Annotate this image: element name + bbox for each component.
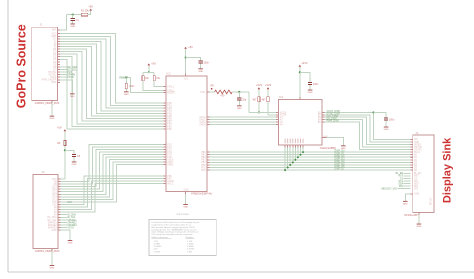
svg-text:+3V3: +3V3 [301,61,308,65]
svg-text:GND: GND [384,129,389,131]
svg-text:J2: J2 [42,170,45,174]
svg-text:XTAL1: XTAL1 [167,86,175,89]
svg-text:5 EN: 5 EN [187,251,192,253]
svg-text:AREF: AREF [167,164,174,167]
svg-text:AVCC: AVCC [167,182,174,185]
svg-text:GND: GND [124,94,129,96]
svg-text:I2C_SDA: I2C_SDA [47,216,57,219]
svg-text:100n: 100n [389,118,395,121]
svg-text:GND: GND [183,206,188,208]
svg-text:3.3V except the backlight and: 3.3V except the backlight and the connec… [151,233,193,236]
svg-text:GND: GND [68,242,73,244]
svg-text:J3: J3 [415,131,418,135]
svg-text:ADC6: ADC6 [167,159,174,162]
svg-text:TRIG: TRIG [51,82,57,84]
svg-text:ATMEGA328P-AU: ATMEGA328P-AU [191,192,212,196]
svg-text:Conn notes: Conn notes [177,213,190,216]
svg-text:5 TRIG: 5 TRIG [154,251,161,253]
svg-text:22p: 22p [242,99,247,102]
svg-text:PWR_DISP: PWR_DISP [327,120,340,123]
svg-text:GND: GND [52,230,57,232]
svg-text:MELODY_VIO: MELODY_VIO [381,188,397,191]
svg-text:+3V3: +3V3 [265,83,272,87]
svg-text:+3V3: +3V3 [256,83,263,87]
svg-text:CLK: CLK [67,201,72,204]
svg-text:VIO: VIO [414,189,418,191]
svg-text:GND: GND [70,26,75,28]
svg-text:4k7: 4k7 [262,98,267,101]
svg-text:+5V: +5V [57,125,62,129]
svg-text:GND: GND [198,71,203,73]
svg-text:4k7: 4k7 [252,98,257,101]
svg-text:VCC: VCC [184,79,189,81]
svg-text:DF19G-20P: DF19G-20P [405,214,419,217]
svg-text:GND: GND [403,203,408,205]
svg-text:100n: 100n [204,62,210,65]
svg-text:GND: GND [49,267,54,269]
svg-text:R1 10k: R1 10k [81,9,89,12]
svg-text:XTAL: XTAL [200,91,206,94]
svg-text:Display Sink: Display Sink [441,137,453,203]
svg-text:74AHC125BQ: 74AHC125BQ [320,146,336,150]
svg-text:GND: GND [237,108,242,110]
svg-text:PD6: PD6 [201,170,206,172]
svg-text:DISP_D7: DISP_D7 [335,168,346,171]
svg-text:100n: 100n [129,86,135,88]
svg-text:GND3: GND3 [199,124,206,126]
svg-text:GND: GND [416,226,421,228]
svg-text:+5V: +5V [188,45,193,49]
svg-text:GND: GND [70,96,75,98]
svg-text:RESET: RESET [167,92,175,94]
svg-text:SPARE1: SPARE1 [48,221,58,224]
svg-text:VSYS: VSYS [67,76,74,79]
svg-text:VSYS: VSYS [67,227,74,230]
svg-text:+5V: +5V [151,62,156,66]
svg-text:PB2: PB2 [167,129,172,131]
svg-text:GND: GND [183,190,188,192]
svg-text:GoPro Source: GoPro Source [14,24,28,108]
svg-text:GOPRO_HERO_BUS: GOPRO_HERO_BUS [35,250,60,253]
svg-text:BAT: BAT [52,29,57,32]
svg-text:GND: GND [414,194,419,196]
svg-text:470: 470 [220,94,225,97]
svg-text:SPARE3: SPARE3 [48,226,58,229]
svg-text:J1: J1 [40,23,43,27]
svg-text:GND: GND [308,92,313,94]
svg-text:DF19G: DF19G [431,197,433,205]
svg-text:IC2: IC2 [279,95,284,99]
svg-text:SPARE2: SPARE2 [48,224,58,227]
svg-text:GND: GND [72,164,77,166]
svg-text:IC1: IC1 [167,72,172,76]
svg-text:100n: 100n [313,83,319,86]
svg-text:+5V: +5V [88,5,93,9]
svg-text:GND: GND [49,118,54,120]
svg-text:IRQ: IRQ [399,185,403,188]
svg-text:GOPRO_HERO_BUS: GOPRO_HERO_BUS [35,102,60,105]
